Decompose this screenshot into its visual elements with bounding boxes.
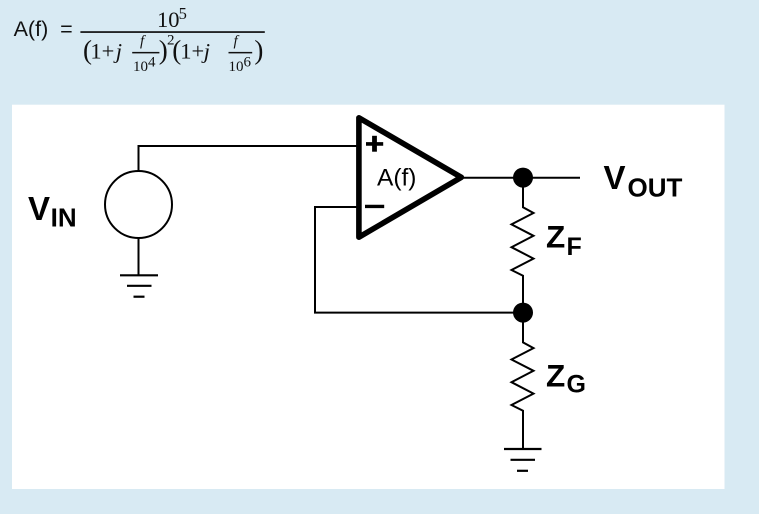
svg-text:A(f) =: A(f) = (14, 17, 73, 41)
svg-text:4: 4 (148, 55, 156, 71)
svg-text:f: f (234, 34, 240, 50)
svg-text:): ) (254, 35, 263, 65)
svg-text:10: 10 (157, 7, 180, 32)
svg-text:G: G (567, 371, 586, 399)
svg-text:Z: Z (546, 219, 565, 255)
svg-text:5: 5 (179, 4, 187, 23)
svg-text:f: f (140, 34, 146, 50)
svg-text:A(f): A(f) (377, 164, 416, 191)
svg-text:6: 6 (244, 55, 252, 71)
svg-text:1+: 1+ (90, 39, 114, 64)
svg-text:OUT: OUT (628, 173, 683, 203)
svg-text:1+: 1+ (180, 39, 204, 64)
svg-text:IN: IN (51, 203, 77, 233)
svg-text:V: V (28, 190, 50, 227)
svg-text:F: F (567, 233, 582, 261)
svg-text:V: V (604, 159, 626, 196)
svg-text:10: 10 (133, 59, 148, 75)
svg-text:Z: Z (546, 358, 565, 394)
svg-text:10: 10 (229, 59, 244, 75)
